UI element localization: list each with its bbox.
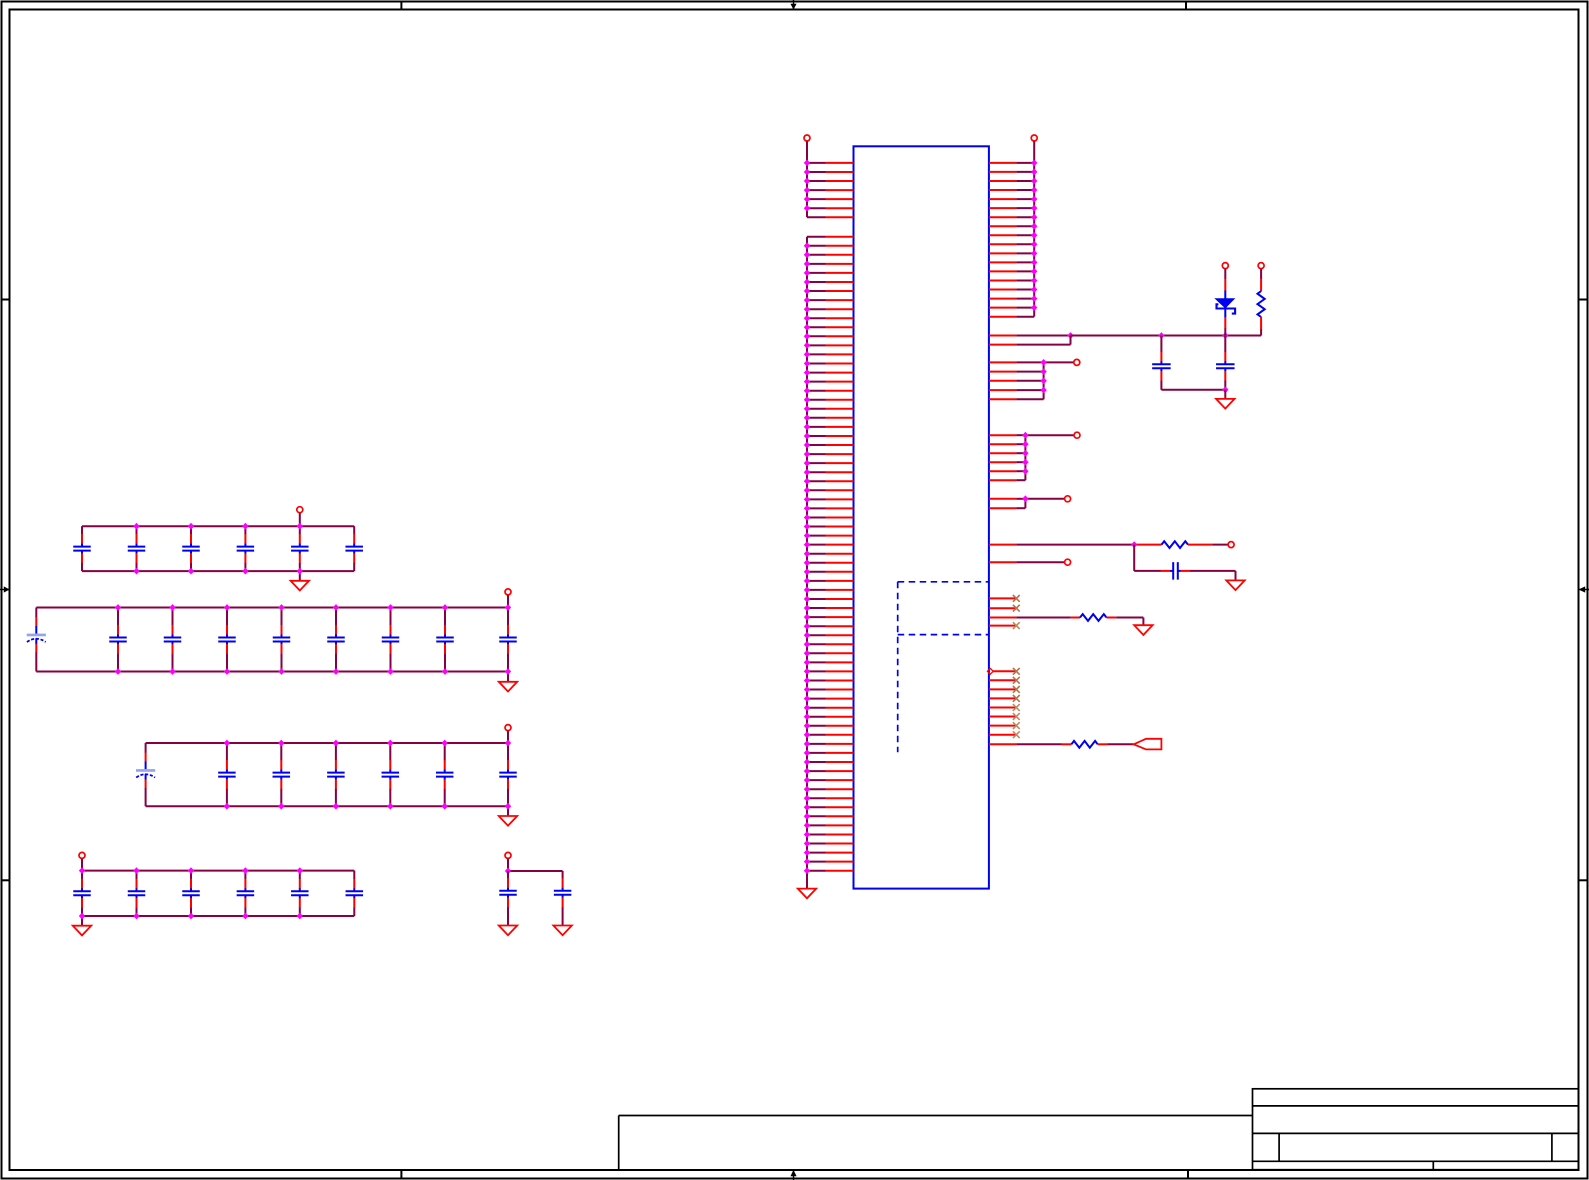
pin	[804, 324, 854, 331]
pin	[804, 541, 854, 548]
pin	[804, 242, 854, 249]
pin	[804, 333, 854, 340]
pin	[804, 270, 854, 277]
power node	[505, 589, 511, 608]
capacitor C22	[499, 743, 517, 806]
capacitor C18	[273, 743, 291, 806]
pin	[804, 605, 854, 612]
pin	[989, 368, 1047, 375]
pin	[804, 867, 854, 874]
pin	[804, 378, 854, 385]
power node	[1065, 559, 1071, 565]
pin	[804, 731, 854, 738]
resistor R4	[1062, 741, 1107, 748]
pin	[804, 169, 854, 176]
pin	[989, 336, 1071, 345]
pin	[804, 261, 854, 268]
pin	[804, 523, 854, 530]
no-connect pin with diamond	[987, 668, 1019, 675]
pin	[804, 550, 854, 557]
capacitor C7 (polarized)	[27, 608, 46, 672]
wire: left pin bus (top group)	[806, 163, 808, 217]
pin	[804, 532, 854, 539]
no-connect pin	[989, 686, 1020, 693]
capacitor C14	[436, 608, 454, 672]
capacitor C17	[218, 743, 236, 806]
pin	[989, 286, 1038, 293]
pin	[989, 277, 1038, 284]
ground	[1134, 625, 1152, 635]
pin	[804, 686, 854, 693]
pin	[804, 804, 854, 811]
pin	[804, 514, 854, 521]
power node	[297, 507, 303, 527]
capacitor C20	[382, 743, 400, 806]
pin	[804, 840, 854, 847]
capacitor C32	[1160, 336, 1162, 353]
capacitor C15	[499, 608, 517, 672]
capacitor C19	[327, 743, 345, 806]
capacitor C11	[273, 608, 291, 672]
pin	[989, 441, 1029, 448]
pin	[804, 786, 854, 793]
wire: bank3 top rail	[146, 742, 508, 744]
power node	[1074, 359, 1080, 365]
pin	[989, 187, 1038, 194]
pin	[804, 849, 854, 856]
wire	[1107, 743, 1134, 745]
capacitor C23	[73, 871, 91, 916]
wire junctions	[133, 523, 303, 575]
pin	[804, 478, 854, 485]
pin	[804, 695, 854, 702]
capacitor C10	[218, 608, 236, 672]
wire: bus to power	[1044, 362, 1074, 399]
wire	[1161, 389, 1225, 391]
wire	[1224, 390, 1226, 399]
wire: rail	[1071, 332, 1262, 339]
no-connect pin	[989, 722, 1020, 729]
pin	[804, 360, 854, 367]
wire: bank4 top rail	[82, 870, 354, 872]
IC U1	[854, 146, 989, 888]
no-connect pin	[989, 622, 1020, 629]
dashed internal block of U1	[898, 582, 989, 752]
wire: bank2 bottom rail	[36, 671, 508, 673]
wire	[1116, 618, 1143, 626]
resistor R2	[1137, 541, 1213, 548]
capacitor C8	[109, 608, 127, 672]
wire	[505, 868, 563, 875]
pin	[989, 160, 1038, 167]
pin	[804, 414, 854, 421]
no-connect pin	[989, 605, 1020, 612]
pin	[804, 795, 854, 802]
wire junctions	[224, 740, 512, 810]
pin	[804, 713, 854, 720]
pin	[804, 505, 854, 512]
pin	[804, 251, 854, 258]
pin	[804, 704, 854, 711]
pin	[804, 306, 854, 313]
net tag	[1134, 739, 1162, 750]
pin	[804, 858, 854, 865]
pin	[989, 387, 1047, 394]
power node	[79, 852, 85, 870]
wire: left pin bus (main group)	[806, 237, 808, 889]
ground	[499, 806, 517, 826]
power node	[505, 852, 511, 871]
resistor R1	[1258, 269, 1265, 336]
wire: bank4 bottom rail	[82, 915, 354, 917]
no-connect pin	[989, 704, 1020, 711]
capacitor C2	[128, 526, 146, 571]
pin	[804, 387, 854, 394]
wire: right pin bus (top group)	[1033, 163, 1035, 317]
pin	[989, 205, 1038, 212]
pin	[804, 433, 854, 440]
wire	[1212, 544, 1228, 546]
ground	[499, 672, 517, 692]
pin	[804, 279, 854, 286]
capacitor C31	[1134, 570, 1161, 572]
pin	[804, 650, 854, 657]
capacitor C3	[182, 526, 200, 571]
capacitor C16 (polarized)	[136, 743, 155, 806]
no-connect pin	[989, 731, 1020, 738]
capacitor C26	[237, 871, 255, 916]
pin	[989, 169, 1038, 176]
wire: bank1 top rail	[82, 525, 354, 527]
wire: bus to power	[1025, 499, 1064, 508]
pin	[804, 205, 854, 212]
wire	[1133, 545, 1135, 571]
no-connect pin	[989, 595, 1020, 602]
no-connect pin	[989, 713, 1020, 720]
pin	[989, 377, 1047, 384]
ground	[1216, 399, 1234, 409]
wire junctions	[79, 867, 303, 919]
pin	[989, 268, 1038, 275]
pin	[989, 259, 1038, 266]
pin	[989, 250, 1038, 257]
pin	[989, 332, 1074, 339]
pin	[989, 541, 1138, 548]
power node	[1065, 496, 1071, 502]
pin	[804, 813, 854, 820]
pin	[989, 223, 1038, 230]
capacitor C4	[237, 526, 255, 571]
pin	[989, 295, 1038, 302]
pin	[807, 236, 854, 238]
pin	[804, 822, 854, 829]
pin	[989, 450, 1029, 457]
pin	[989, 241, 1038, 248]
pin	[804, 369, 854, 376]
pin	[989, 495, 1029, 502]
pin	[804, 442, 854, 449]
ground	[553, 926, 571, 936]
ground (left bus)	[798, 889, 816, 899]
zener diode D1	[1216, 269, 1236, 336]
pin	[807, 216, 854, 218]
pin	[804, 559, 854, 566]
power node (left bus top)	[804, 135, 810, 163]
pin	[804, 405, 854, 412]
pin	[804, 568, 854, 575]
capacitor C5	[291, 526, 309, 571]
pin	[804, 750, 854, 757]
pin	[804, 496, 854, 503]
capacitor C21	[436, 743, 454, 806]
pin	[989, 196, 1038, 203]
pin	[989, 459, 1029, 466]
pin	[804, 759, 854, 766]
capacitor C1	[73, 526, 91, 571]
capacitor C27	[291, 871, 309, 916]
pin	[804, 623, 854, 630]
pin	[989, 432, 1029, 439]
capacitor C29	[499, 871, 517, 926]
pin	[804, 196, 854, 203]
pin	[989, 316, 1034, 318]
capacitor C24	[128, 871, 146, 916]
pin	[804, 315, 854, 322]
pin	[804, 396, 854, 403]
power node	[505, 725, 511, 743]
pin	[989, 214, 1038, 221]
no-connect pin	[989, 695, 1020, 702]
pin	[989, 468, 1029, 475]
power node	[1228, 542, 1234, 548]
wire	[1235, 571, 1237, 581]
pin	[804, 641, 854, 648]
ground	[499, 926, 517, 936]
power node	[1074, 432, 1080, 438]
pin	[804, 722, 854, 729]
pin	[804, 487, 854, 494]
capacitor C28	[346, 871, 364, 916]
pin	[804, 632, 854, 639]
wire junctions	[115, 604, 511, 675]
no-connect pin	[989, 677, 1020, 684]
capacitor C33	[1216, 336, 1235, 394]
pin	[804, 768, 854, 775]
pin	[989, 398, 1044, 400]
capacitor C30	[554, 871, 572, 926]
pin	[804, 741, 854, 748]
ground	[291, 571, 309, 590]
pin	[989, 178, 1038, 185]
pin	[804, 451, 854, 458]
pin	[804, 460, 854, 467]
pin	[989, 743, 1062, 745]
pin	[804, 596, 854, 603]
ground	[73, 916, 91, 935]
wire: bank3 bottom rail	[146, 805, 508, 807]
pin	[989, 304, 1038, 311]
pin	[989, 479, 1026, 481]
capacitor C12	[327, 608, 345, 672]
pin	[804, 160, 854, 167]
pin	[804, 587, 854, 594]
pin	[804, 288, 854, 295]
pin	[804, 469, 854, 476]
pin	[804, 668, 854, 675]
wire: bank2 top rail	[36, 607, 508, 609]
pin	[989, 359, 1047, 366]
wire: bus to power	[1025, 435, 1074, 480]
capacitor C9	[164, 608, 182, 672]
pin	[989, 561, 1065, 563]
pin	[804, 614, 854, 621]
resistor R3	[1071, 614, 1117, 621]
pin	[804, 342, 854, 349]
pin	[804, 677, 854, 684]
pin	[804, 297, 854, 304]
pin	[989, 507, 1026, 509]
capacitor C25	[182, 871, 200, 916]
ground	[1226, 580, 1244, 590]
wire: bank1 bottom rail	[82, 570, 354, 572]
power node (right bus top)	[1031, 135, 1037, 163]
pin	[804, 187, 854, 194]
pin	[804, 831, 854, 838]
capacitor C13	[382, 608, 400, 672]
pin	[804, 777, 854, 784]
power node	[1222, 263, 1228, 269]
power node	[1258, 263, 1264, 269]
capacitor C6	[345, 526, 363, 571]
pin	[989, 617, 1071, 619]
pin	[989, 232, 1038, 239]
pin	[804, 424, 854, 431]
pin	[804, 578, 854, 585]
pin	[804, 659, 854, 666]
pin	[804, 178, 854, 185]
pin	[804, 351, 854, 358]
